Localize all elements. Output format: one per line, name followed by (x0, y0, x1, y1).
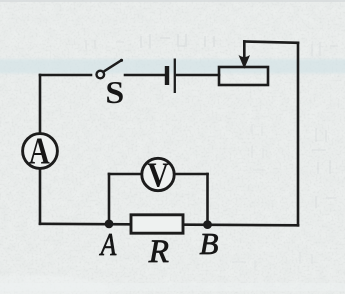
bleed-through ghost marks (86, 34, 338, 270)
wire voltmeter branch top right (175, 173, 208, 176)
svg-text:R: R (148, 234, 169, 270)
voltmeter V (142, 158, 174, 190)
wire switch to battery (125, 74, 165, 77)
node A dot (105, 220, 114, 229)
svg-text:S: S (105, 76, 124, 111)
rheostat box (219, 67, 268, 85)
ammeter A (23, 134, 58, 169)
svg-text:V: V (147, 156, 169, 195)
wire voltmeter branch right vertical (206, 174, 209, 225)
top edge scan shadow (0, 0, 345, 2)
switch S: lever tip blob (120, 59, 123, 62)
switch S: pivot circle (97, 71, 105, 79)
wire voltmeter branch top left (109, 173, 142, 176)
svg-text:A: A (99, 227, 117, 262)
wire bottom horizontal (40, 224, 298, 226)
rheostat slider arrowhead (239, 56, 249, 68)
resistor R box (131, 215, 183, 233)
switch S: lever (104, 60, 121, 71)
wire left vertical lower (ammeter to bottom corner) (39, 169, 42, 224)
lighter bottom-left corner (0, 275, 110, 294)
faint lower band (0, 283, 345, 291)
wire slider vertical (243, 42, 246, 58)
wire right vertical (297, 43, 300, 226)
battery: short thick negative plate (165, 66, 169, 85)
svg-text:B: B (200, 226, 219, 261)
battery: long thin positive plate (174, 59, 176, 94)
wire slider top horizontal (244, 42, 298, 43)
pale blue highlight band (0, 59, 345, 74)
svg-text:A: A (29, 131, 50, 173)
node B dot (203, 220, 212, 229)
wire top-left: corner to switch (40, 74, 91, 77)
wire voltmeter branch left vertical (108, 174, 111, 224)
wire left vertical upper (corner to ammeter) (39, 75, 42, 134)
wire battery to rheostat (177, 74, 219, 77)
